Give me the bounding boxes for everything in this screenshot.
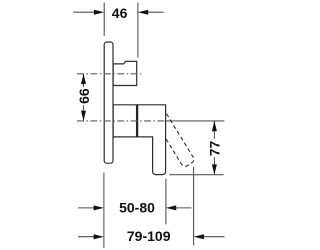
extension line (handle axis, right) xyxy=(166,120,224,122)
dimension 77 (right vertical) xyxy=(206,121,222,175)
diverter knob (top, side view) xyxy=(113,61,137,85)
handle body block xyxy=(113,105,166,175)
dimension 79-109 (bottom) xyxy=(78,167,225,246)
svg-text:46: 46 xyxy=(112,5,128,21)
dimension 66 (left vertical) xyxy=(76,74,92,121)
handle centerline xyxy=(77,120,166,122)
dimension 50-80 (bottom) xyxy=(78,173,192,248)
svg-text:77: 77 xyxy=(206,141,222,157)
dashed lever (rotated position) xyxy=(149,105,195,168)
svg-text:79-109: 79-109 xyxy=(127,228,171,244)
svg-text:66: 66 xyxy=(76,88,92,104)
svg-text:50-80: 50-80 xyxy=(119,199,155,215)
extension line (lever bottom, right) xyxy=(169,174,223,176)
dimension 46 (top) xyxy=(73,3,163,58)
handle flange front rim (double line) xyxy=(136,105,138,137)
knob centerline xyxy=(77,73,141,75)
wall plate (escutcheon, side view) xyxy=(104,42,113,163)
